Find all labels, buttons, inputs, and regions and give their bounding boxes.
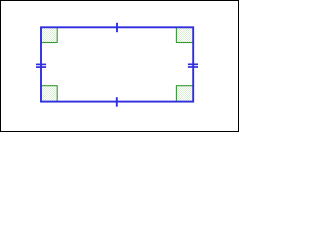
double tick left edge lower	[36, 66, 46, 68]
double tick right edge lower	[188, 66, 198, 68]
double tick right edge upper	[188, 63, 198, 65]
right-angle marker bottom-right	[176, 86, 193, 102]
rectangle ABCD blue outline	[41, 27, 193, 101]
double tick left edge upper	[36, 63, 46, 65]
right-angle marker top-left	[41, 27, 57, 42]
tick mark bottom edge	[116, 97, 118, 107]
right-angle marker bottom-left	[41, 86, 57, 102]
tick mark top edge	[116, 23, 118, 32]
outer black frame	[1, 1, 239, 132]
right-angle marker top-right	[176, 27, 193, 42]
